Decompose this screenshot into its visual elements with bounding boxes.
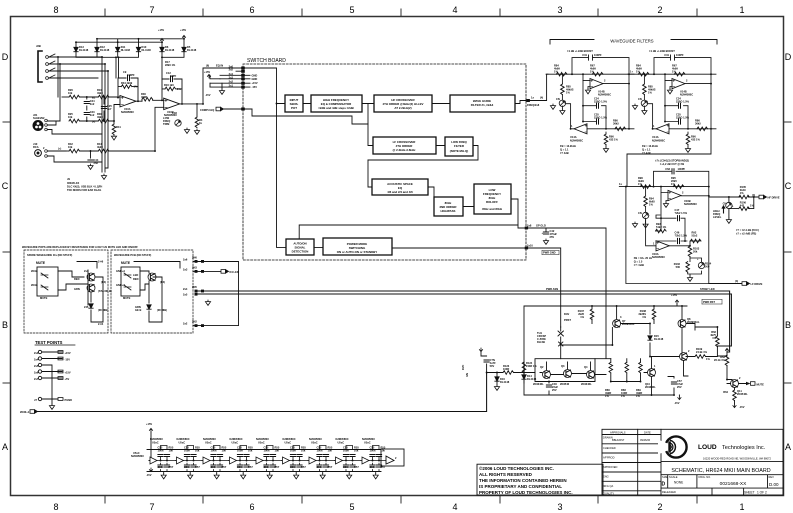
capacitor C47 <box>678 216 680 221</box>
ground trimmer <box>632 222 637 227</box>
transistor Q10 <box>648 369 656 377</box>
svg-text:DATE: DATE <box>644 431 651 435</box>
svg-text:Q4: Q4 <box>584 365 588 369</box>
ground U16B <box>663 202 668 207</box>
svg-text:ROLOFF: ROLOFF <box>486 200 498 204</box>
wire long signal run <box>38 373 487 412</box>
connector LF drive <box>709 283 742 285</box>
block wave guide filter <box>450 95 515 112</box>
svg-text:20k: 20k <box>693 250 698 254</box>
op-amp buffer stage 1 <box>149 437 176 479</box>
svg-text:±? ≈4dB: ±? ≈4dB <box>634 263 644 267</box>
svg-text:16220 WOOD-RED ROAD NE, WOODIN: 16220 WOOD-RED ROAD NE, WOODINVILLE, WA … <box>703 457 771 461</box>
capacitor C34 input <box>484 360 489 362</box>
mute relay box 2 <box>121 267 140 296</box>
resistor R124 <box>522 362 526 373</box>
svg-text:25V: 25V <box>677 385 682 389</box>
ground R41 <box>111 135 116 140</box>
block hf crossover <box>374 95 432 112</box>
capacitor C9 <box>128 75 130 80</box>
svg-text:C63: C63 <box>665 167 670 171</box>
svg-text:NJM4580C: NJM4580C <box>121 110 134 114</box>
wire switch board to stage 1 input <box>530 74 548 100</box>
svg-text:LEVEL: LEVEL <box>713 215 722 219</box>
resistor R16 <box>165 87 176 91</box>
svg-text:SWITCH BOARD: SWITCH BOARD <box>247 58 286 64</box>
svg-text:DL4148: DL4148 <box>79 48 89 52</box>
svg-text:+15V: +15V <box>180 28 186 32</box>
transistor Q9 <box>680 353 688 361</box>
svg-text:+15V: +15V <box>252 81 258 85</box>
block acoustic space eq <box>372 179 428 195</box>
svg-text:DL4148: DL4148 <box>165 48 175 52</box>
capacitor C46b <box>546 385 551 387</box>
svg-text:J9: J9 <box>67 177 70 181</box>
resistor R93 <box>656 229 667 233</box>
resistor R68 <box>625 362 629 373</box>
connector pins right of box2 <box>195 260 205 327</box>
svg-text:7: 7 <box>149 5 154 15</box>
title block outline <box>602 429 783 495</box>
resistor R62 <box>716 336 720 347</box>
svg-text:+15V: +15V <box>158 28 164 32</box>
svg-text:R16 1k0: R16 1k0 <box>164 83 174 87</box>
svg-text:MUTE: MUTE <box>123 296 131 300</box>
resistor R92 <box>690 239 701 243</box>
svg-text:0021668-XX: 0021668-XX <box>720 481 747 487</box>
svg-text:45Hz and 80Hz: 45Hz and 80Hz <box>482 207 503 211</box>
ground shield bus <box>101 174 106 179</box>
wire U10B out riser <box>203 68 243 104</box>
svg-text:49k9: 49k9 <box>97 115 103 119</box>
waveguide filter stage 1 U14 <box>546 49 634 155</box>
svg-text:ENG: ENG <box>603 475 609 479</box>
resistor R30 <box>98 119 109 123</box>
svg-text:CN: CN <box>638 211 642 215</box>
svg-text:DWG. NO.: DWG. NO. <box>699 475 712 479</box>
svg-text:C: C <box>785 181 792 191</box>
input RC network <box>481 352 535 373</box>
svg-text:+5V: +5V <box>65 377 70 381</box>
svg-text:+15V: +15V <box>65 371 71 375</box>
svg-text:2: 2 <box>657 502 662 512</box>
svg-text:2x2: 2x2 <box>229 80 234 84</box>
svg-text:AP'PROD: AP'PROD <box>603 456 615 460</box>
svg-text:FILTER: FILTER <box>454 144 465 148</box>
ground stage3 <box>687 276 692 281</box>
svg-text:2N4A: 2N4A <box>31 283 38 287</box>
svg-text:MUTE: MUTE <box>36 261 45 265</box>
resistor R69 <box>639 362 643 373</box>
capacitor C63 <box>672 169 674 174</box>
resistor R25 <box>69 119 80 123</box>
feedback loop U10B wires <box>162 79 203 104</box>
svg-text:POT: POT <box>291 106 297 110</box>
svg-text:D: D <box>785 52 792 62</box>
svg-text:GND: GND <box>252 73 258 77</box>
svg-text:DL4148: DL4148 <box>187 48 197 52</box>
transistor Q mute1a <box>87 273 95 281</box>
resistor R36 <box>142 98 153 102</box>
svg-text:1x: 1x <box>619 182 622 186</box>
svg-text:SHEET: SHEET <box>744 491 755 495</box>
svg-text:1: 1 <box>654 364 656 368</box>
svg-text:PWR RST: PWR RST <box>703 300 715 304</box>
svg-text:B: B <box>785 320 791 330</box>
transistor Q7 <box>613 320 621 328</box>
svg-text:2N4546L: 2N4546L <box>737 392 748 396</box>
switch board dashed outline <box>243 64 526 260</box>
svg-text:DL4148: DL4148 <box>527 377 537 381</box>
svg-text:2: 2 <box>43 146 45 150</box>
svg-text:C: C <box>2 181 9 191</box>
feedback loop U10A wires <box>118 78 142 101</box>
svg-text:2N4346L: 2N4346L <box>581 382 592 386</box>
dashed box spare waveguide <box>24 250 108 333</box>
svg-text:SCHEMATIC, HR624 MKII MAIN BOA: SCHEMATIC, HR624 MKII MAIN BOARD <box>671 468 770 474</box>
power +15V right <box>725 348 728 352</box>
svg-text:TRIM: TRIM <box>163 122 169 126</box>
junction dots power amp <box>486 305 728 396</box>
svg-text:Q2: Q2 <box>540 365 544 369</box>
wire compu-eq lower path <box>252 109 368 124</box>
svg-text:2n2: 2n2 <box>94 161 99 165</box>
svg-text:PWR ASN: PWR ASN <box>546 287 558 291</box>
svg-text:RED: RED <box>74 277 80 281</box>
svg-text:+15V: +15V <box>204 70 210 74</box>
resistor R105 <box>739 195 750 199</box>
op-amp buffer stage 4 <box>229 437 256 479</box>
ground trimmer hf <box>726 218 731 223</box>
svg-text:2N4346L: 2N4346L <box>645 385 656 389</box>
svg-text:243R 1%: 243R 1% <box>526 364 537 368</box>
svg-text:2x5: 2x5 <box>183 293 188 297</box>
wire mid rows <box>80 97 104 158</box>
svg-text:@ 2.2kHz-3.6kHz: @ 2.2kHz-3.6kHz <box>393 148 416 152</box>
svg-text:WAVEGUIDE PCB (NO STUFF): WAVEGUIDE PCB (NO STUFF) <box>114 253 151 257</box>
trimmer R104 <box>698 262 704 268</box>
diode D5 <box>182 47 186 51</box>
wire J10 to lower path <box>47 151 102 162</box>
svg-text:TEST POINTS: TEST POINTS <box>35 340 63 345</box>
svg-text:QUALITY: QUALITY <box>603 492 614 496</box>
svg-text:RCA: RCA <box>33 145 39 149</box>
svg-text:10k: 10k <box>68 145 73 149</box>
op-amp buffer stage 6 <box>282 437 309 479</box>
svg-text:51k2: 51k2 <box>692 234 698 238</box>
wire lower fb to U10B <box>109 107 164 151</box>
resistor R106 <box>739 207 750 211</box>
svg-text:2x6: 2x6 <box>183 258 188 262</box>
op-amp U10B <box>164 98 180 109</box>
wire mute2 to transistors <box>134 262 180 323</box>
resistor R42 <box>66 150 69 152</box>
svg-text:2x1: 2x1 <box>229 84 234 88</box>
svg-text:B: B <box>2 320 8 330</box>
transistors input pair <box>543 371 551 379</box>
svg-text:D: D <box>662 482 666 488</box>
ground C44 <box>88 164 93 169</box>
svg-text:500: 500 <box>705 265 710 269</box>
ground C42 <box>543 239 548 244</box>
copyright note box <box>477 464 603 495</box>
svg-text:2N5: 2N5 <box>192 285 197 289</box>
diode D6 <box>160 47 164 51</box>
svg-text:DETECTION: DETECTION <box>292 250 309 254</box>
wire input sens to hf eq <box>250 68 526 248</box>
capacitor C42 <box>543 232 548 234</box>
resistor R66 <box>609 362 613 373</box>
svg-text:2: 2 <box>43 116 45 120</box>
svg-text:STDBY LED: STDBY LED <box>700 287 715 291</box>
svg-text:2x2: 2x2 <box>183 322 188 326</box>
svg-text:1%: 1% <box>642 315 646 319</box>
svg-text:2x3: 2x3 <box>229 75 234 79</box>
wire stage 2 output to stage 3 <box>627 129 711 187</box>
op-amp U16A <box>656 241 669 251</box>
wire R36 to U10B <box>142 99 164 101</box>
block lf crossover <box>373 137 436 154</box>
wire pwr double lines to amp <box>198 291 731 352</box>
svg-text:2N6: 2N6 <box>192 256 197 260</box>
power +15V pin <box>207 74 210 78</box>
svg-text:?2k2 1.5%: ?2k2 1.5% <box>675 234 688 238</box>
svg-text:NJM4580C: NJM4580C <box>684 202 697 206</box>
svg-text:25V: 25V <box>550 235 555 239</box>
svg-text:2n2: 2n2 <box>90 102 95 106</box>
resistor R96 <box>640 185 651 189</box>
resistor R34 <box>121 85 132 89</box>
transistor Q8 <box>678 320 686 328</box>
svg-text:REV: REV <box>769 475 775 479</box>
svg-text:2x5: 2x5 <box>229 68 234 72</box>
svg-text:2x3: 2x3 <box>183 268 188 272</box>
svg-text:2-#6: 2-#6 <box>98 260 104 264</box>
svg-text:2x4: 2x4 <box>183 287 188 291</box>
wire chain top rail <box>147 450 381 472</box>
svg-text:THE INFORMATION CONTAINED HERE: THE INFORMATION CONTAINED HEREIN <box>479 478 567 483</box>
svg-text:WAVEGUIDE FILTERS: WAVEGUIDE FILTERS <box>610 39 653 44</box>
wire rolloff to detection <box>299 225 518 239</box>
waveguide filter stage 3 (stopband) U16 <box>619 159 712 284</box>
svg-text:GE B: GE B <box>135 308 141 312</box>
dashed box waveguide pcb <box>111 250 193 333</box>
svg-text:0603/0-XX: 0603/0-XX <box>67 181 80 185</box>
svg-text:1: 1 <box>739 5 744 15</box>
resistor R102 <box>686 262 690 273</box>
svg-text:J7: J7 <box>34 398 37 402</box>
svg-text:NONE: NONE <box>674 481 683 485</box>
power -15V right <box>733 404 736 408</box>
resistor R108 <box>652 309 656 320</box>
resistor R44 <box>98 149 109 153</box>
resistor R26 <box>62 96 69 98</box>
svg-text:8: 8 <box>53 502 58 512</box>
svg-text:(STA ND B): (STA ND B) <box>98 289 112 293</box>
svg-text:MUTE: MUTE <box>40 296 48 300</box>
svg-text:2N3904AL: 2N3904AL <box>622 322 635 326</box>
svg-text:10k: 10k <box>68 115 73 119</box>
ground pot <box>184 128 189 133</box>
svg-text:4: 4 <box>452 5 457 15</box>
svg-text:100R: 100R <box>503 367 509 371</box>
svg-text:GN: GN <box>465 373 469 377</box>
svg-text:AT 2.2kHz(2): AT 2.2kHz(2) <box>394 106 411 110</box>
svg-text:ON or AUTO-ON or STANDBY: ON or AUTO-ON or STANDBY <box>337 250 377 254</box>
HF level trimmer cluster <box>709 185 780 236</box>
svg-text:PROPERTY OF LOUD TECHNOLOGIES: PROPERTY OF LOUD TECHNOLOGIES INC. <box>479 490 573 495</box>
svg-text:2: 2 <box>395 456 397 460</box>
svg-text:1+: 1+ <box>630 70 633 74</box>
diode D16 <box>495 377 499 381</box>
svg-text:3: 3 <box>620 315 622 319</box>
svg-text:1: 1 <box>653 242 655 246</box>
diode D10 <box>136 47 140 51</box>
svg-text:LOUD: LOUD <box>698 444 717 451</box>
diode D12 <box>95 47 99 51</box>
svg-text:4n7: 4n7 <box>107 107 112 111</box>
svg-text:APPROVED: APPROVED <box>603 465 618 469</box>
svg-text:NJM4580C: NJM4580C <box>131 454 144 458</box>
svg-text:49k9: 49k9 <box>97 91 103 95</box>
svg-text:BBHURST: BBHURST <box>612 438 625 442</box>
svg-text:±+1,2 dB CUT @ FB: ±+1,2 dB CUT @ FB <box>660 162 684 166</box>
resistor R64 <box>733 390 737 401</box>
svg-text:HIGHPASS: HIGHPASS <box>441 209 456 213</box>
svg-text:50V: 50V <box>490 364 495 368</box>
svg-text:R64: R64 <box>723 390 728 394</box>
junction dots input section <box>57 38 277 152</box>
svg-text:DL4148: DL4148 <box>142 48 152 52</box>
svg-text:3: 3 <box>557 5 562 15</box>
svg-text:2N3: 2N3 <box>192 266 197 270</box>
resistor R41 <box>112 124 116 135</box>
svg-text:+15V: +15V <box>146 422 152 426</box>
svg-text:-15V: -15V <box>739 405 745 409</box>
svg-text:2x4: 2x4 <box>84 269 89 273</box>
svg-text:2N4346L: 2N4346L <box>533 382 544 386</box>
wire compu-eq to pin <box>224 108 253 110</box>
svg-text:5: 5 <box>349 502 354 512</box>
connector MUTE out <box>746 382 751 386</box>
svg-text:(NOTE MH-Q): (NOTE MH-Q) <box>450 149 469 153</box>
op-amp buffer stage 9 <box>361 437 388 479</box>
svg-text:±? ≈ ±2.4 dB (FCC): ±? ≈ ±2.4 dB (FCC) <box>736 228 759 232</box>
svg-text:+15V: +15V <box>671 293 677 297</box>
svg-text:R34 4k99: R34 4k99 <box>121 81 133 85</box>
svg-text:-15V: -15V <box>205 93 211 97</box>
svg-text:-15V: -15V <box>146 473 152 477</box>
svg-text:(+): (+) <box>92 120 95 124</box>
svg-text:RELEASED: RELEASED <box>662 490 676 494</box>
capacitor C24 <box>84 102 89 104</box>
op-amp buffer stage 5 <box>255 437 282 479</box>
connector D LED <box>221 270 229 274</box>
diode mute1 <box>89 304 93 308</box>
svg-text:J2B: J2B <box>36 44 41 48</box>
svg-text:?2k2 1.5%: ?2k2 1.5% <box>675 211 688 215</box>
power +15V chain <box>149 428 152 432</box>
svg-text:4/6 and 2/4 and 4/6: 4/6 and 2/4 and 4/6 <box>387 190 413 194</box>
svg-text:2: 2 <box>688 349 690 353</box>
svg-text:2N2: 2N2 <box>192 320 197 324</box>
svg-text:4k99: 4k99 <box>97 145 103 149</box>
svg-text:FB ≈ 16+ 20 Hz: FB ≈ 16+ 20 Hz <box>634 256 653 260</box>
ground R4 <box>194 129 199 134</box>
svg-text:SIZE: SIZE <box>662 475 668 479</box>
diode rail +15V <box>160 38 163 42</box>
svg-text:26.1k 1%: 26.1k 1% <box>714 358 726 362</box>
svg-text:±? ≈ ±2.4dB (FB): ±? ≈ ±2.4dB (FB) <box>736 232 756 236</box>
svg-text:SCALE: SCALE <box>669 475 678 479</box>
wire down to acoustic space <box>368 160 526 228</box>
svg-text:2: 2 <box>739 376 741 380</box>
svg-text:D: D <box>2 52 9 62</box>
ground mute pins <box>205 300 210 305</box>
svg-text:1%: 1% <box>706 357 710 361</box>
op-amp buffer stage 8 <box>335 437 362 479</box>
svg-text:5: 5 <box>349 5 354 15</box>
svg-text:TDC MODS FOR EAR DLAG: TDC MODS FOR EAR DLAG <box>67 188 101 192</box>
svg-text:ALL RIGHTS RESERVED: ALL RIGHTS RESERVED <box>479 472 533 477</box>
svg-text:+: + <box>697 258 699 261</box>
svg-text:09/26/06: 09/26/06 <box>640 438 651 442</box>
svg-text:2N4546: 2N4546 <box>560 382 570 386</box>
resistor R4 vertical <box>196 104 198 117</box>
block power mode switching <box>323 238 392 255</box>
svg-text:(D4): (D4) <box>160 280 165 284</box>
wire hf eq column down to lf crossover <box>368 104 478 161</box>
svg-text:-15V: -15V <box>674 401 680 405</box>
op-amp U16B <box>668 190 681 200</box>
svg-text:2: 2 <box>657 5 662 15</box>
op-amp buffer stage 2 <box>176 437 203 479</box>
svg-text:GP GLD: GP GLD <box>536 224 546 228</box>
svg-text:SLEEVE: SLEEVE <box>33 116 44 120</box>
svg-text:499R: 499R <box>141 95 147 99</box>
capacitor C25 <box>101 107 106 109</box>
svg-text:25V: 25V <box>552 388 557 392</box>
svg-text:DLC 4X(2), USB BLK 4 LQFH: DLC 4X(2), USB BLK 4 LQFH <box>67 185 102 189</box>
op-amp U10A <box>120 96 136 107</box>
svg-text:-15V: -15V <box>65 358 71 362</box>
svg-text:(ID:MIB): (ID:MIB) <box>157 308 167 312</box>
capacitor C23 <box>84 113 89 115</box>
svg-text:8: 8 <box>53 5 58 15</box>
svg-text:(D4): (D4) <box>101 280 106 284</box>
svg-text:245: 245 <box>84 305 89 309</box>
amp frame wires <box>524 304 746 404</box>
pin header J4B rows <box>210 68 250 89</box>
svg-text:28k0 1%: 28k0 1% <box>165 63 176 67</box>
svg-text:(6): (6) <box>206 64 209 68</box>
svg-text:RED: RED <box>133 277 139 281</box>
svg-text:MUTE: MUTE <box>121 261 130 265</box>
svg-text:NJM4580C: NJM4580C <box>652 255 665 259</box>
svg-text:100PF: 100PF <box>678 167 686 171</box>
svg-text:COMPU-EQ: COMPU-EQ <box>200 108 214 112</box>
block high frequency eq <box>311 95 362 112</box>
block 80hz highpass <box>434 197 463 216</box>
svg-text:(4): (4) <box>735 279 738 283</box>
svg-text:+15V: +15V <box>65 351 71 355</box>
svg-text:1x: 1x <box>531 96 534 100</box>
svg-text:DVF: DVF <box>461 364 465 370</box>
svg-text:2N40+1: 2N40+1 <box>20 410 30 414</box>
approvals table texts <box>603 431 651 496</box>
svg-text:A: A <box>2 442 8 452</box>
op-amp buffer stage 3 <box>202 437 229 479</box>
